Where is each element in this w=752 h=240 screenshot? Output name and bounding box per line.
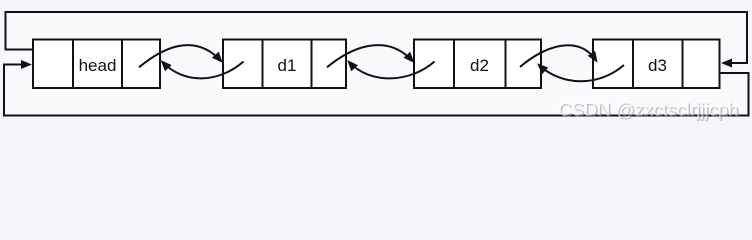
node d2 [414, 40, 541, 89]
svg-text:d2: d2 [470, 56, 489, 75]
node d1 box [223, 40, 346, 89]
arrow head.next -> d1 (upper curve) [139, 45, 222, 67]
node head divider data|next [121, 40, 123, 89]
node d1 [223, 40, 346, 89]
node d3 [593, 40, 720, 89]
page background [0, 0, 752, 129]
node d2 divider prev|data [453, 40, 455, 89]
node head box [33, 40, 160, 89]
wire d3.next -> head (right, bottom and left segments with arrow into head prev cell) [4, 65, 749, 116]
node d2 box [414, 40, 541, 89]
outer loop interior field [5, 12, 749, 116]
arrow d2.prev -> d1 (lower curve) [349, 62, 435, 79]
node d2 divider data|next [505, 40, 507, 89]
svg-text:head: head [79, 56, 117, 75]
node d3 box [593, 40, 720, 89]
node d1 divider prev|data [262, 40, 264, 89]
node d1 divider data|next [311, 40, 313, 89]
arrow d2.next -> d3 (upper curve) [520, 45, 597, 67]
node head [33, 40, 160, 89]
svg-text:d3: d3 [648, 56, 667, 75]
node head divider prev|data [72, 40, 74, 89]
svg-text:CSDN @zxctsclrjjjcph: CSDN @zxctsclrjjjcph [558, 98, 738, 119]
node d3 divider data|next [682, 40, 684, 89]
wire head.prev -> d3 (left, top and right segments with arrow into d3 next cell) [6, 12, 748, 63]
arrow d3.prev -> d2 (lower curve) [539, 65, 625, 82]
arrow d1.next -> d2 (upper curve) [327, 45, 413, 67]
arrow d1.prev -> head (lower curve) [162, 62, 244, 79]
node d3 divider prev|data [632, 40, 634, 89]
svg-text:d1: d1 [278, 56, 297, 75]
